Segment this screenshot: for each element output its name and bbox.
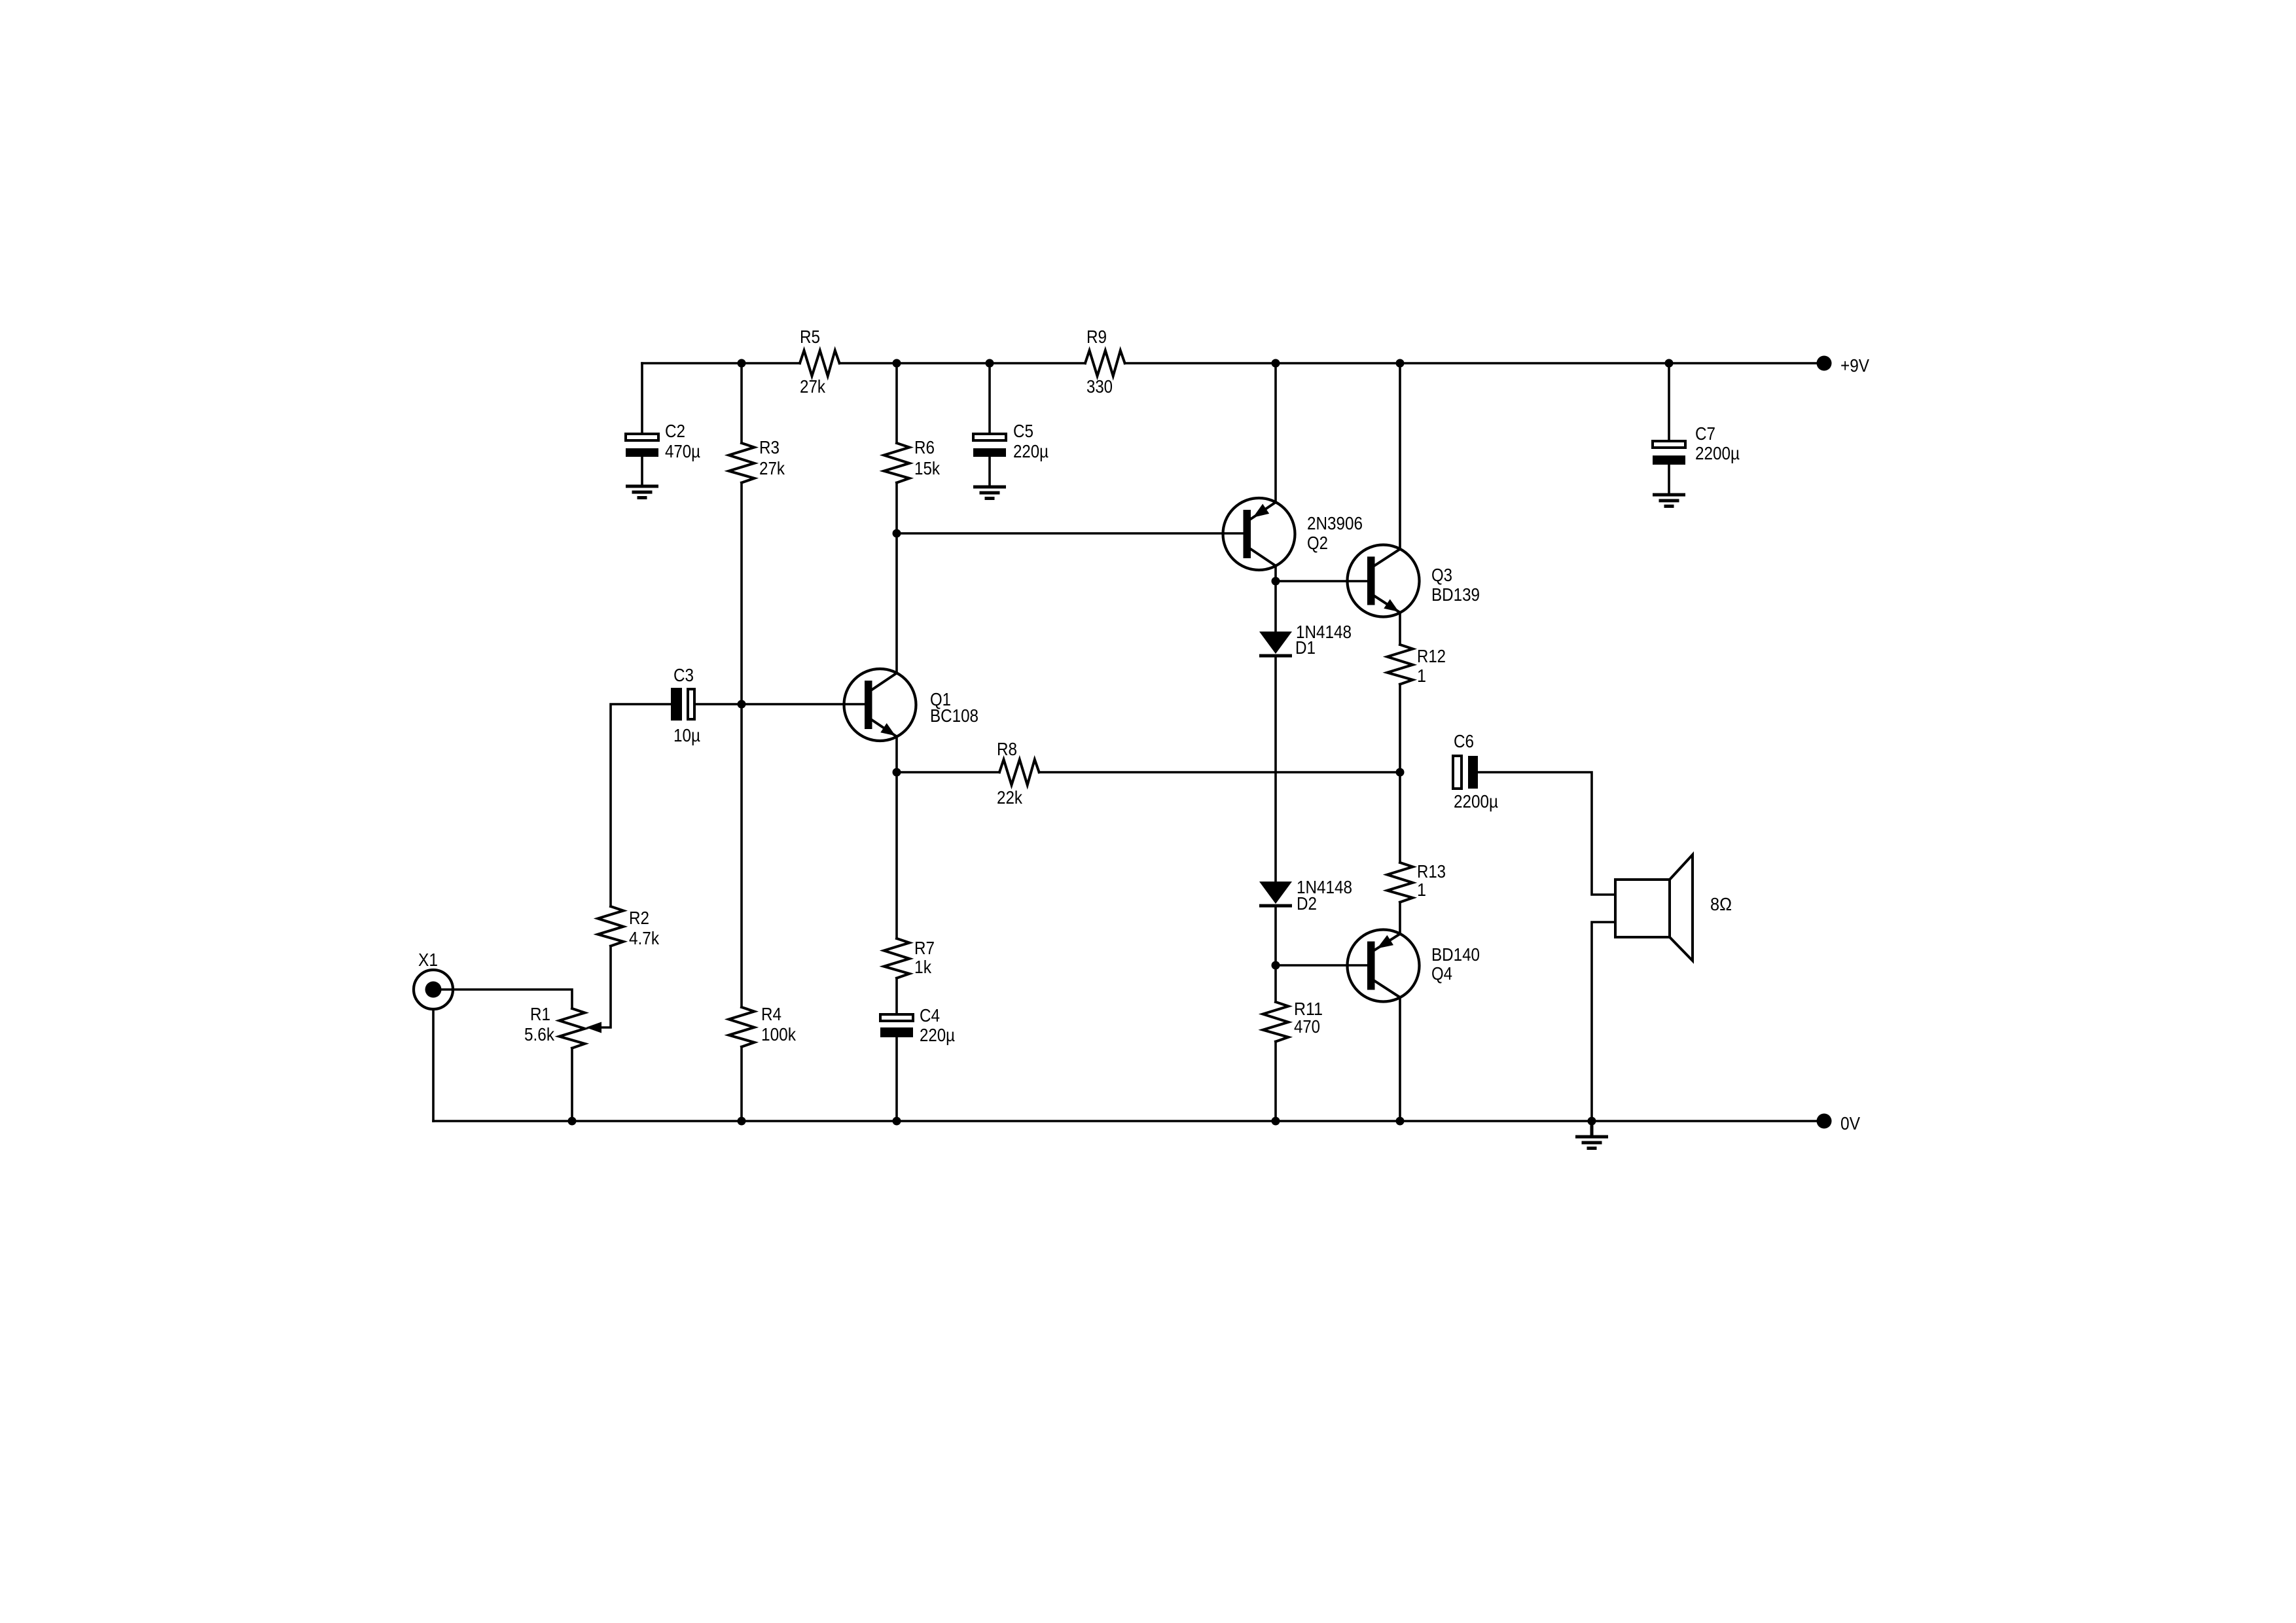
- ground at speaker return: [1575, 1121, 1608, 1149]
- wire Q3 collector to rail: [1399, 363, 1401, 549]
- wire R12 bottom to output node: [1399, 685, 1401, 772]
- wire node to Q4 base: [1276, 964, 1367, 967]
- svg-text:R13: R13: [1417, 861, 1446, 882]
- wire R6 top from rail: [895, 363, 898, 443]
- svg-text:+9V: +9V: [1840, 355, 1869, 376]
- svg-text:C7: C7: [1695, 423, 1715, 444]
- wire R3 bottom to base node: [740, 483, 743, 704]
- wire X1 tip to R1 top: [441, 990, 572, 1008]
- resistor R7 1k: [884, 938, 935, 978]
- svg-text:0V: 0V: [1840, 1113, 1860, 1133]
- svg-text:D1: D1: [1295, 637, 1316, 658]
- wire R3 top from rail: [740, 363, 743, 443]
- svg-text:C5: C5: [1013, 421, 1033, 441]
- wire Q3 emitter to R12: [1399, 613, 1401, 645]
- svg-text:R6: R6: [914, 437, 935, 457]
- transistor Q2 2N3906: [1223, 498, 1363, 570]
- junction R3 on +9V rail: [738, 359, 746, 368]
- wire C5 to ground: [988, 457, 991, 487]
- wire R4 top from base node: [740, 704, 743, 1007]
- node Q4 base / R11 top: [1272, 961, 1280, 970]
- wire R4 bottom to 0V rail: [740, 1047, 743, 1121]
- junction R6 on +9V rail: [893, 359, 901, 368]
- wire R13 bottom to Q4 emitter: [1399, 902, 1401, 934]
- wire C2 to ground: [641, 457, 643, 486]
- speaker 8 ohm: [1615, 855, 1732, 961]
- transistor Q3 BD139: [1348, 545, 1480, 617]
- junction Q3 collector on +9V rail: [1396, 359, 1405, 368]
- svg-text:4.7k: 4.7k: [629, 928, 660, 948]
- junction C7 on +9V rail: [1665, 359, 1674, 368]
- resistor R4 100k: [729, 1004, 797, 1047]
- wire D2 cathode to Q4 base node: [1274, 908, 1277, 965]
- svg-text:Q4: Q4: [1431, 963, 1452, 984]
- wire R7 bottom to C4: [895, 978, 898, 1013]
- connector X1: [414, 950, 453, 1009]
- wire C6 to speaker upper terminal: [1478, 772, 1615, 895]
- wire Q1 emitter to feedback node: [895, 737, 898, 773]
- wire 0V rail: [433, 1120, 1824, 1122]
- wire C5 from rail: [988, 363, 991, 433]
- svg-text:2N3906: 2N3906: [1307, 513, 1363, 533]
- capacitor C5 220u: [973, 421, 1049, 461]
- resistor R13 1: [1388, 861, 1446, 902]
- wire emitter node to R8: [897, 771, 999, 774]
- wire node to Q1 collector: [895, 533, 898, 673]
- wire +9V rail segment right of R9: [1125, 362, 1824, 365]
- ground below C7: [1653, 495, 1685, 507]
- svg-text:R4: R4: [761, 1004, 781, 1024]
- junction R4 on 0V rail: [738, 1117, 746, 1126]
- terminal +9V: [1817, 355, 1870, 376]
- svg-text:100k: 100k: [761, 1024, 797, 1044]
- svg-text:Q3: Q3: [1431, 565, 1452, 585]
- svg-text:R2: R2: [629, 908, 649, 928]
- ground below C5: [973, 487, 1006, 499]
- wire D1 cathode to D2 anode: [1274, 658, 1277, 882]
- resistor R12 1: [1388, 645, 1446, 686]
- diode D1 1N4148: [1259, 622, 1352, 658]
- resistor R5 27k: [800, 327, 840, 397]
- svg-text:R7: R7: [914, 938, 935, 958]
- capacitor C6 2200u: [1453, 731, 1498, 811]
- resistor R6 15k: [884, 437, 941, 483]
- transistor Q1 BC108: [844, 669, 979, 741]
- wire R11 bottom to 0V rail: [1274, 1042, 1277, 1121]
- svg-text:R3: R3: [759, 437, 780, 457]
- resistor R2 4.7k: [598, 906, 660, 948]
- junction Q4 collector on 0V rail: [1396, 1117, 1405, 1126]
- svg-text:27k: 27k: [759, 458, 785, 478]
- node base of Q1: [738, 700, 746, 709]
- junction Q2 emitter on +9V rail: [1272, 359, 1280, 368]
- junction C5 on +9V rail: [986, 359, 994, 368]
- svg-text:Q2: Q2: [1307, 533, 1328, 553]
- capacitor C2 470u: [626, 421, 700, 461]
- wire base node to Q1 base: [742, 703, 865, 705]
- wire output node down to R13: [1399, 772, 1401, 863]
- wire C4 bottom to 0V rail: [895, 1037, 898, 1121]
- svg-text:R5: R5: [800, 327, 820, 347]
- capacitor C7 2200u: [1653, 423, 1740, 465]
- wire Q2 collector to node: [1274, 566, 1277, 582]
- svg-text:X1: X1: [418, 950, 438, 970]
- svg-text:C4: C4: [920, 1005, 940, 1026]
- wire node down to R11: [1274, 965, 1277, 1002]
- diode D2 1N4148: [1259, 877, 1352, 914]
- potentiometer R1 5.6k: [524, 1004, 585, 1048]
- junction R11 on 0V rail: [1272, 1117, 1280, 1126]
- svg-text:2200µ: 2200µ: [1454, 791, 1498, 811]
- wire speaker lower terminal to 0V rail: [1592, 922, 1615, 1121]
- svg-text:BD139: BD139: [1431, 584, 1480, 605]
- node Q1 collector / Q2 base: [893, 529, 901, 538]
- svg-text:D2: D2: [1297, 893, 1317, 914]
- svg-text:BD140: BD140: [1431, 944, 1480, 965]
- svg-text:R12: R12: [1417, 646, 1446, 666]
- wire +9V rail segment left of R5: [642, 362, 800, 365]
- capacitor C3 10u: [671, 665, 700, 745]
- svg-text:C2: C2: [665, 421, 685, 441]
- capacitor C4 220u: [880, 1005, 955, 1045]
- wire X1 sleeve down to 0V rail: [432, 1009, 435, 1121]
- wire Q4 collector to 0V rail: [1399, 997, 1401, 1121]
- terminal 0V: [1817, 1113, 1861, 1133]
- wire C2 to +9V rail: [641, 363, 643, 433]
- svg-text:27k: 27k: [800, 376, 826, 397]
- ground below C2: [626, 486, 658, 498]
- svg-text:470: 470: [1294, 1016, 1320, 1037]
- svg-text:C3: C3: [673, 665, 694, 685]
- transistor Q4 BD140: [1348, 930, 1480, 1002]
- junction C4 on 0V rail: [893, 1117, 901, 1126]
- junction speaker ground on 0V rail: [1588, 1117, 1596, 1126]
- node Q2 collector / Q3 base: [1272, 577, 1280, 586]
- wiper arrow of R1 from R2: [586, 946, 611, 1033]
- resistor R3 27k: [729, 437, 785, 483]
- svg-text:R1: R1: [530, 1004, 550, 1024]
- wire +9V rail segment between R5 and R9: [840, 362, 1085, 365]
- svg-text:8Ω: 8Ω: [1710, 894, 1732, 914]
- svg-text:5.6k: 5.6k: [524, 1024, 555, 1044]
- svg-text:220µ: 220µ: [1013, 441, 1049, 461]
- svg-text:1: 1: [1417, 666, 1426, 686]
- svg-text:470µ: 470µ: [665, 441, 700, 461]
- wire R8 to output node (crosses diode chain): [1039, 771, 1400, 774]
- wire C7 from rail: [1668, 363, 1670, 440]
- wire R2 top to C3 left: [611, 704, 671, 906]
- resistor R9 330: [1085, 327, 1125, 397]
- svg-text:R9: R9: [1086, 327, 1107, 347]
- node output midpoint: [1396, 768, 1405, 777]
- wire C7 to ground: [1668, 465, 1670, 495]
- svg-text:2200µ: 2200µ: [1695, 443, 1740, 463]
- svg-text:10µ: 10µ: [673, 725, 700, 745]
- wire R6 bottom to collector node: [895, 483, 898, 533]
- wire node to Q3 base: [1276, 580, 1367, 582]
- svg-text:330: 330: [1086, 376, 1113, 397]
- wire node to Q2 base: [897, 532, 1244, 535]
- wire C3 right to base node: [696, 703, 742, 705]
- junction R1 on 0V rail: [568, 1117, 577, 1126]
- svg-text:1k: 1k: [914, 957, 932, 977]
- svg-text:BC108: BC108: [930, 705, 978, 726]
- wire node to D1 anode: [1274, 581, 1277, 632]
- wire R1 bottom to 0V rail: [571, 1048, 573, 1121]
- node Q1 emitter: [893, 768, 901, 777]
- svg-text:15k: 15k: [914, 458, 941, 478]
- svg-text:C6: C6: [1454, 731, 1474, 751]
- svg-text:1: 1: [1417, 880, 1426, 900]
- resistor R11 470: [1263, 999, 1323, 1042]
- svg-text:220µ: 220µ: [920, 1025, 955, 1045]
- resistor R8 22k: [997, 739, 1039, 808]
- svg-text:R8: R8: [997, 739, 1017, 759]
- svg-text:22k: 22k: [997, 787, 1023, 808]
- wire Q2 emitter from rail: [1274, 363, 1277, 503]
- wire emitter node down to R7: [895, 772, 898, 938]
